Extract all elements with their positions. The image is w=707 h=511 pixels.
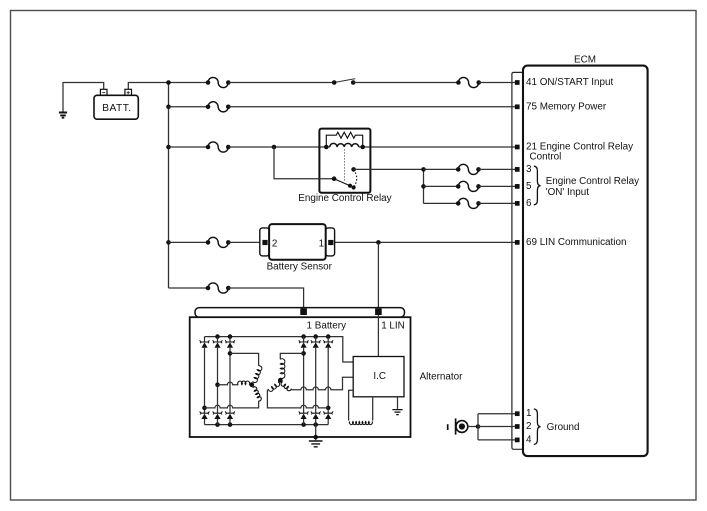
svg-text:4: 4	[526, 434, 532, 445]
svg-text:2: 2	[272, 238, 278, 249]
svg-text:BATT.: BATT.	[102, 103, 131, 114]
svg-text:1: 1	[526, 408, 532, 419]
svg-text:69 LIN Communication: 69 LIN Communication	[526, 237, 626, 248]
svg-text:1 Battery: 1 Battery	[307, 320, 347, 331]
svg-text:Alternator: Alternator	[420, 371, 464, 382]
svg-text:75 Memory Power: 75 Memory Power	[526, 101, 607, 112]
svg-text:3: 3	[526, 164, 532, 175]
svg-text:1 LIN: 1 LIN	[381, 320, 405, 331]
svg-text:1: 1	[319, 238, 325, 249]
svg-text:Ground: Ground	[547, 422, 580, 433]
svg-text:Battery Sensor: Battery Sensor	[267, 262, 333, 273]
svg-text:Control: Control	[530, 152, 562, 163]
svg-text:'ON' Input: 'ON' Input	[546, 187, 590, 198]
svg-text:Engine Control Relay: Engine Control Relay	[546, 176, 639, 187]
svg-text:ECM: ECM	[574, 55, 596, 66]
svg-text:41 ON/START Input: 41 ON/START Input	[526, 77, 614, 88]
svg-text:Engine Control Relay: Engine Control Relay	[298, 193, 391, 204]
svg-text:I.C: I.C	[373, 371, 386, 382]
svg-text:5: 5	[526, 181, 532, 192]
svg-text:2: 2	[526, 421, 532, 432]
svg-text:6: 6	[526, 198, 532, 209]
